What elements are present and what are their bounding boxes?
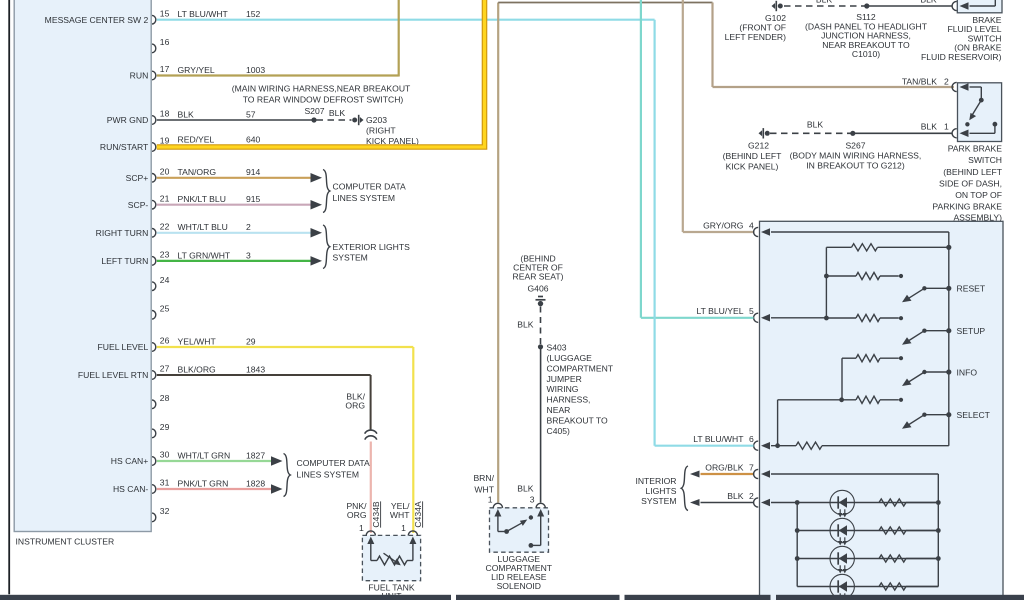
wire pin31 PNK/LT GRN 1828 — [157, 488, 271, 490]
svg-text:1: 1 — [944, 122, 949, 132]
svg-text:21: 21 — [160, 193, 170, 203]
fuel tank wiper arrow — [384, 553, 396, 562]
wire pin26 YEL/WHT 29 — [157, 346, 414, 348]
svg-text:25: 25 — [160, 303, 170, 313]
svg-text:GRY/YEL: GRY/YEL — [178, 65, 215, 75]
svg-text:C405): C405) — [547, 426, 571, 436]
svg-text:23: 23 — [160, 250, 170, 260]
svg-text:ON TOP OF: ON TOP OF — [955, 190, 1002, 200]
wire PNK/ORG vertical to fuel tank — [370, 442, 372, 534]
wire LT BLU/YEL vertical — [640, 0, 642, 318]
svg-text:PARK BRAKE: PARK BRAKE — [948, 143, 1003, 153]
arrow ORG/BLK to interior lights — [690, 471, 700, 478]
brake fluid level switch box — [957, 0, 1002, 13]
wire top cut horizontal — [498, 2, 712, 4]
svg-text:COMPUTER DATA: COMPUTER DATA — [297, 458, 370, 468]
cluster pin 30 (HS CAN+) — [111, 450, 170, 467]
svg-text:HS CAN+: HS CAN+ — [111, 456, 149, 466]
brace interior lights — [681, 466, 688, 511]
svg-text:COMPUTER DATA: COMPUTER DATA — [333, 182, 406, 192]
svg-text:3: 3 — [246, 250, 251, 260]
wire BLK S403 to solenoid — [540, 347, 542, 503]
resistor row3 — [826, 317, 856, 319]
splice S267 — [850, 131, 855, 136]
svg-text:2: 2 — [749, 491, 754, 501]
solenoid pin3 internal wire — [540, 517, 542, 546]
svg-text:915: 915 — [246, 194, 261, 204]
svg-text:EXTERIOR LIGHTS: EXTERIOR LIGHTS — [333, 242, 411, 252]
svg-text:S403: S403 — [547, 342, 567, 352]
svg-text:BLK: BLK — [178, 109, 195, 119]
fuel tank pin1 connector — [366, 531, 375, 536]
svg-text:SYSTEM: SYSTEM — [333, 253, 368, 263]
arrow pin30 to computer data — [271, 456, 283, 466]
svg-text:640: 640 — [246, 134, 261, 144]
left page border line — [8, 0, 10, 594]
svg-text:1843: 1843 — [246, 364, 265, 374]
msg box left rail 2 — [841, 358, 843, 400]
svg-text:WHT/LT BLU: WHT/LT BLU — [178, 222, 228, 232]
svg-text:ORG: ORG — [345, 401, 365, 411]
svg-text:(BODY MAIN WIRING HARNESS,: (BODY MAIN WIRING HARNESS, — [790, 150, 922, 160]
svg-text:(RIGHT: (RIGHT — [366, 126, 396, 136]
wire TAN/BLK vertical — [711, 3, 713, 88]
cluster pin 24 — [152, 275, 170, 291]
msg box left rail 1 — [825, 247, 827, 318]
wire pin15 LT BLU/WHT 152 (cyan) horizontal — [157, 19, 655, 21]
msg box pin2 wire — [771, 502, 797, 504]
cluster pin 17 (RUN) — [130, 64, 170, 81]
resistor row1 — [826, 246, 851, 248]
svg-text:57: 57 — [246, 109, 256, 119]
svg-text:152: 152 — [246, 9, 261, 19]
svg-text:LT BLU/WHT: LT BLU/WHT — [693, 434, 744, 444]
wire GRY/YEL vertical to top — [398, 0, 400, 77]
svg-text:G212: G212 — [748, 141, 769, 151]
wire GRY/ORG vertical — [682, 0, 684, 232]
solenoid box — [490, 508, 549, 552]
svg-text:17: 17 — [160, 64, 170, 74]
wire BLK dashed G212 to S267 — [770, 132, 853, 134]
svg-text:30: 30 — [160, 450, 170, 460]
svg-text:JUMPER: JUMPER — [547, 374, 582, 384]
wire TAN/BLK horizontal to park brake — [713, 86, 955, 88]
svg-text:BLK/ORG: BLK/ORG — [178, 364, 217, 374]
svg-text:C434A: C434A — [413, 501, 423, 528]
resistor row2 — [826, 275, 856, 277]
LED row 3 — [795, 546, 941, 573]
wire GRY/ORG horizontal to pin4 — [683, 231, 755, 233]
svg-text:BREAKOUT TO: BREAKOUT TO — [547, 415, 608, 425]
msg box pin6 connector — [754, 441, 759, 450]
msg box right rail upper — [948, 232, 950, 446]
svg-text:914: 914 — [246, 167, 261, 177]
park brake switch internals — [970, 86, 982, 88]
wire pin17 GRY/YEL 1003 — [157, 74, 399, 76]
svg-text:FUEL LEVEL: FUEL LEVEL — [98, 342, 149, 352]
cluster pin 15 (MESSAGE CENTER SW 2) — [45, 8, 170, 25]
svg-text:(BEHIND LEFT: (BEHIND LEFT — [943, 167, 1002, 177]
svg-text:ORG/BLK: ORG/BLK — [705, 462, 743, 472]
wire pin18 BLK 57 — [157, 119, 314, 121]
solenoid pin1 connector — [493, 503, 502, 508]
node rail1 bottom — [824, 316, 829, 321]
svg-text:4: 4 — [749, 220, 754, 230]
cluster pin 26 (FUEL LEVEL) — [98, 336, 170, 353]
arrow pin31 to computer data — [271, 484, 283, 494]
svg-text:19: 19 — [160, 136, 170, 146]
svg-text:29: 29 — [246, 336, 256, 346]
LED row 2 — [795, 518, 941, 545]
wire BLK dashed from G406 — [540, 307, 542, 347]
cluster pin 16 — [152, 37, 170, 53]
msg box pin2 connector — [754, 498, 759, 507]
svg-text:BLK: BLK — [921, 122, 938, 132]
svg-text:WIRING: WIRING — [547, 384, 579, 394]
svg-text:27: 27 — [160, 364, 170, 374]
svg-text:32: 32 — [160, 506, 170, 516]
svg-text:BLK: BLK — [517, 320, 534, 330]
splice S403 — [538, 344, 543, 349]
svg-text:COMPARTMENT: COMPARTMENT — [547, 363, 614, 373]
svg-text:SOLENOID: SOLENOID — [497, 581, 541, 591]
msg box led right rail — [937, 474, 939, 587]
svg-text:29: 29 — [160, 422, 170, 432]
inline connector C434 arcs — [365, 430, 377, 434]
svg-text:INTERIOR: INTERIOR — [635, 476, 676, 486]
svg-text:1003: 1003 — [246, 65, 265, 75]
svg-text:LT BLU/WHT: LT BLU/WHT — [178, 9, 229, 19]
svg-text:SIDE OF DASH,: SIDE OF DASH, — [939, 179, 1002, 189]
svg-text:FUEL LEVEL RTN: FUEL LEVEL RTN — [78, 370, 148, 380]
arrow BLK to interior lights — [690, 499, 700, 506]
wire LT BLU/YEL horizontal pin5 — [641, 317, 754, 319]
svg-text:1828: 1828 — [246, 478, 265, 488]
svg-text:BLK: BLK — [727, 491, 744, 501]
svg-text:SELECT: SELECT — [957, 410, 991, 420]
msg box pin4 connector — [754, 227, 759, 236]
resistor row5 — [778, 399, 856, 401]
msg box led left rail — [796, 503, 798, 587]
svg-text:FLUID RESERVOIR): FLUID RESERVOIR) — [921, 52, 1002, 62]
svg-text:LINES SYSTEM: LINES SYSTEM — [333, 193, 396, 203]
svg-text:LT GRN/WHT: LT GRN/WHT — [178, 250, 231, 260]
wire pin20 TAN/ORG 914 — [157, 177, 313, 179]
wire pin21 PNK/LT BLU 915 — [157, 204, 313, 206]
message center switch box — [760, 221, 1004, 600]
svg-text:C434B: C434B — [371, 501, 381, 528]
svg-text:(LUGGAGE: (LUGGAGE — [547, 353, 593, 363]
svg-text:IN BREAKOUT TO G212): IN BREAKOUT TO G212) — [806, 160, 905, 170]
svg-text:15: 15 — [160, 8, 170, 18]
svg-text:HARNESS,: HARNESS, — [547, 395, 591, 405]
svg-text:TAN/BLK: TAN/BLK — [902, 76, 937, 86]
arrow pin23 to exterior lights — [311, 256, 323, 266]
wire BLK S112 to brake fluid switch — [867, 5, 953, 7]
svg-text:2: 2 — [944, 76, 949, 86]
svg-text:5: 5 — [749, 306, 754, 316]
instrument cluster box U1 — [14, 0, 151, 532]
brake fluid switch internal wire — [970, 5, 996, 7]
svg-text:MESSAGE CENTER SW 2: MESSAGE CENTER SW 2 — [45, 15, 149, 25]
svg-text:PARKING BRAKE: PARKING BRAKE — [932, 202, 1002, 212]
bottom bar segment 4 — [776, 595, 1024, 600]
wire BLK dashed to G203 — [317, 119, 352, 121]
bottom bar segment 3 — [625, 595, 771, 600]
svg-text:RUN: RUN — [130, 71, 149, 81]
svg-text:RESET: RESET — [957, 284, 986, 294]
svg-text:7: 7 — [749, 462, 754, 472]
switch INFO — [902, 367, 977, 386]
switch SETUP — [902, 326, 985, 345]
svg-text:BLK: BLK — [807, 120, 824, 130]
cluster pin 25 — [152, 303, 170, 319]
svg-text:S267: S267 — [845, 141, 865, 151]
svg-text:(MAIN WIRING HARNESS,NEAR BREA: (MAIN WIRING HARNESS,NEAR BREAKOUT — [232, 84, 411, 94]
bottom bar segment 1 — [0, 595, 451, 600]
solenoid pin3 connector — [536, 503, 545, 508]
node row3 contact — [899, 316, 903, 320]
node rail3 bottom — [775, 443, 780, 448]
wire LT BLU/WHT horizontal pin6 — [655, 445, 754, 447]
node row5 mid — [839, 397, 844, 402]
arrow pin20 to computer data — [311, 173, 323, 183]
node row2 left — [824, 274, 829, 279]
svg-text:WHT: WHT — [474, 484, 494, 494]
svg-text:16: 16 — [160, 37, 170, 47]
svg-text:LEFT FENDER): LEFT FENDER) — [725, 32, 787, 42]
svg-text:HS CAN-: HS CAN- — [113, 484, 148, 494]
svg-text:PWR GND: PWR GND — [107, 115, 149, 125]
cluster pin 28 — [152, 393, 170, 409]
switch RESET — [902, 284, 986, 303]
ground G212 — [759, 130, 763, 136]
park brake switch box — [958, 83, 1002, 142]
svg-text:TAN/ORG: TAN/ORG — [178, 167, 217, 177]
msg box pin7 connector — [754, 469, 759, 478]
svg-text:3: 3 — [530, 495, 535, 505]
park brake pin2 connector — [952, 82, 957, 91]
svg-text:BLK: BLK — [816, 0, 833, 5]
svg-text:KICK PANEL): KICK PANEL) — [726, 161, 779, 171]
cluster pin 29 — [152, 422, 170, 438]
svg-text:YEL/WHT: YEL/WHT — [178, 336, 217, 346]
wire pin19 RED/YEL 640 thick yellow — [157, 0, 485, 147]
node row5 contact — [899, 398, 903, 402]
svg-text:28: 28 — [160, 393, 170, 403]
svg-text:26: 26 — [160, 336, 170, 346]
fuel tank pin2 connector — [408, 531, 417, 536]
wire pin23 LT GRN/WHT 3 — [157, 260, 313, 262]
msg box pin4 wire — [771, 231, 949, 233]
brace computer data lines lower — [284, 454, 291, 497]
node row2 contact — [899, 274, 903, 278]
svg-text:SYSTEM: SYSTEM — [641, 496, 676, 506]
wire ORG/BLK 7 — [701, 473, 754, 475]
svg-text:WHT: WHT — [390, 510, 410, 520]
svg-text:PNK/LT GRN: PNK/LT GRN — [178, 478, 229, 488]
fuel tank sender resistor — [370, 544, 372, 561]
svg-text:1: 1 — [401, 523, 406, 533]
svg-text:BRN/: BRN/ — [473, 473, 494, 483]
ground G406 — [538, 296, 543, 298]
cluster pin 22 (RIGHT TURN) — [96, 221, 170, 238]
wire BLK/ORG vertical — [370, 375, 372, 431]
wire BLK pin2 — [701, 502, 754, 504]
wire LT BLU/WHT vertical — [653, 20, 655, 446]
svg-text:18: 18 — [160, 109, 170, 119]
svg-text:SCP+: SCP+ — [126, 173, 149, 183]
LED row 1 — [795, 490, 941, 517]
svg-text:2: 2 — [246, 222, 251, 232]
splice S207 — [311, 117, 316, 122]
svg-text:REAR SEAT): REAR SEAT) — [513, 272, 564, 282]
msg box pin7 wire — [771, 473, 938, 475]
svg-text:BLK: BLK — [329, 108, 346, 118]
node row4 contact — [899, 356, 903, 360]
svg-text:LINES SYSTEM: LINES SYSTEM — [297, 470, 360, 480]
svg-text:1827: 1827 — [246, 450, 265, 460]
svg-text:INSTRUMENT CLUSTER: INSTRUMENT CLUSTER — [16, 537, 115, 547]
svg-text:(BEHIND LEFT: (BEHIND LEFT — [723, 151, 782, 161]
wire pin22 WHT/LT BLU 2 — [157, 232, 313, 234]
svg-text:22: 22 — [160, 221, 170, 231]
ground G203 — [360, 117, 364, 123]
svg-text:G102: G102 — [765, 13, 786, 23]
arrow pin21 to computer data — [311, 200, 323, 210]
bottom bar segment 2 — [456, 595, 620, 600]
svg-text:SWITCH: SWITCH — [968, 155, 1002, 165]
svg-text:G203: G203 — [366, 115, 387, 125]
svg-text:ORG: ORG — [347, 510, 367, 520]
svg-text:C1010): C1010) — [852, 49, 880, 59]
svg-text:PNK/LT BLU: PNK/LT BLU — [178, 194, 226, 204]
svg-text:SETUP: SETUP — [957, 326, 986, 336]
svg-text:24: 24 — [160, 275, 170, 285]
node rail row1 — [946, 245, 951, 250]
svg-text:BLK: BLK — [920, 0, 937, 5]
svg-text:20: 20 — [160, 166, 170, 176]
wire BLK S267 to park brake — [853, 132, 953, 134]
svg-text:1: 1 — [488, 495, 493, 505]
svg-text:NEAR: NEAR — [547, 405, 571, 415]
msg box pin5 wire — [771, 317, 826, 319]
wire pin27 BLK/ORG 1843 — [157, 374, 371, 376]
svg-text:WHT/LT GRN: WHT/LT GRN — [178, 450, 231, 460]
brace exterior lights — [323, 225, 330, 269]
cluster pin 27 (FUEL LEVEL RTN) — [78, 364, 170, 381]
cluster pin 18 (PWR GND) — [107, 109, 170, 126]
cluster pin 19 (RUN/START) — [100, 136, 170, 153]
brake fluid switch pin connector — [952, 1, 957, 10]
svg-text:SCP-: SCP- — [128, 200, 149, 210]
svg-text:RED/YEL: RED/YEL — [178, 134, 215, 144]
svg-text:RIGHT TURN: RIGHT TURN — [96, 228, 149, 238]
svg-text:BLK: BLK — [517, 484, 534, 494]
resistor row4 — [842, 357, 856, 359]
wire YEL/WHT vertical to fuel tank — [412, 347, 414, 533]
svg-text:(FRONT OF: (FRONT OF — [739, 23, 786, 33]
fuel tank unit box — [362, 535, 420, 580]
svg-text:INFO: INFO — [957, 367, 978, 377]
splice S112 — [864, 3, 869, 8]
wire BLK dashed G102 to S112 — [784, 5, 867, 7]
arrow pin22 to exterior lights — [311, 228, 323, 238]
cluster pin 32 — [152, 506, 170, 522]
svg-text:LT BLU/YEL: LT BLU/YEL — [697, 306, 744, 316]
wire BRN/WHT vertical — [497, 3, 499, 503]
park brake pin1 connector — [952, 129, 957, 138]
cluster pin 20 (SCP+) — [126, 166, 170, 183]
svg-text:GRY/ORG: GRY/ORG — [703, 220, 744, 230]
ground G102 — [772, 3, 776, 9]
LED row 4 — [797, 574, 938, 600]
svg-text:LEFT TURN: LEFT TURN — [101, 256, 148, 266]
svg-text:S207: S207 — [304, 106, 324, 116]
switch SELECT — [902, 410, 991, 429]
svg-text:6: 6 — [749, 434, 754, 444]
svg-text:LIGHTS: LIGHTS — [645, 486, 676, 496]
msg box left rail 3 — [777, 400, 779, 446]
svg-text:31: 31 — [160, 478, 170, 488]
svg-text:RUN/START: RUN/START — [100, 142, 149, 152]
svg-text:1: 1 — [359, 523, 364, 533]
cluster pin 31 (HS CAN-) — [113, 478, 170, 495]
msg box pin5 connector — [754, 313, 759, 322]
cluster pin 21 (SCP-) — [128, 193, 170, 210]
cluster pin 23 (LEFT TURN) — [101, 250, 169, 267]
resistor pin6 row — [771, 445, 796, 447]
svg-text:G406: G406 — [527, 284, 548, 294]
svg-text:TO REAR WINDOW DEFROST SWITCH): TO REAR WINDOW DEFROST SWITCH) — [243, 95, 404, 105]
wire pin30 WHT/LT GRN 1827 — [157, 460, 271, 462]
brace computer data lines upper — [323, 170, 330, 213]
solenoid plunger switch — [497, 517, 499, 532]
